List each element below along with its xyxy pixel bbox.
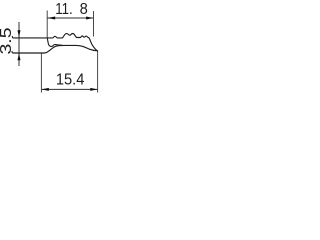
svg-text:3.5: 3.5: [0, 27, 15, 54]
svg-text:11.: 11.: [55, 1, 72, 18]
svg-text:15.4: 15.4: [56, 71, 85, 88]
svg-text:8: 8: [80, 1, 88, 18]
